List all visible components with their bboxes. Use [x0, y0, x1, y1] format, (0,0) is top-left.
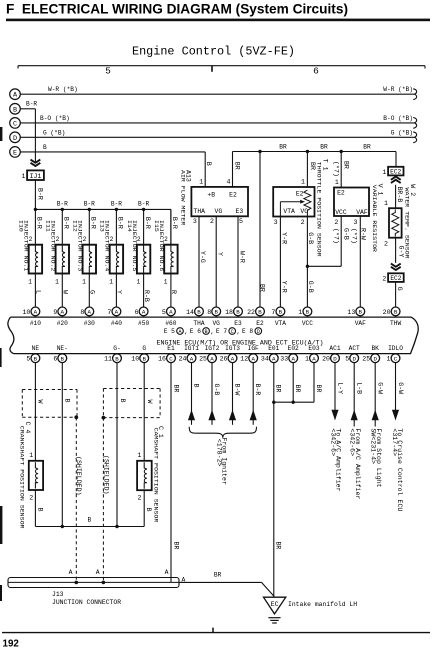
wire BR E2 to ECU [258, 150, 261, 153]
wire B-R below IJ1 [34, 180, 36, 209]
svg-text:EC2: EC2 [390, 275, 401, 282]
svg-text:6: 6 [53, 356, 57, 363]
svg-text:BR: BR [172, 385, 179, 393]
ECU pin 26(A) IGT3 [220, 345, 241, 363]
svg-text:192: 192 [3, 638, 20, 649]
wire BR E02 [292, 363, 294, 403]
svg-text:E 5: E 5 [164, 328, 175, 335]
svg-text:A: A [88, 309, 92, 316]
svg-text:BR: BR [320, 144, 328, 151]
wire B from igniter [188, 363, 200, 425]
svg-text:INJECTOR NO.6: INJECTOR NO.6 [158, 220, 165, 272]
svg-text:A: A [165, 569, 169, 576]
off-page squiggle C [413, 118, 416, 129]
shield drain crank [74, 415, 78, 419]
wire B-W from igniter [229, 363, 241, 425]
svg-text:B: B [359, 309, 363, 316]
svg-text:B: B [236, 309, 240, 316]
svg-text:1: 1 [82, 279, 86, 286]
svg-text:From A/C Amplifier: From A/C Amplifier [354, 428, 361, 499]
ECU pin 1(A) E03 [305, 345, 320, 363]
svg-text:A: A [142, 309, 146, 316]
throttle position sensor T1 [273, 159, 328, 257]
svg-text:A: A [34, 309, 38, 316]
svg-text:(SHIELDED): (SHIELDED) [103, 455, 110, 495]
svg-text:G-W: G-W [397, 382, 404, 394]
svg-text:VCC: VCC [335, 209, 347, 216]
svg-text:From Igniter: From Igniter [221, 438, 228, 486]
svg-text:B-R: B-R [171, 217, 178, 229]
wire G-W IDLO to cruise control ECU [391, 363, 404, 512]
crankshaft position sensor C4 [19, 422, 43, 530]
junction on B-R bus 4 [115, 208, 118, 211]
svg-text:B-R: B-R [144, 217, 151, 229]
arrow down into EC2 pin2 [391, 264, 401, 267]
wire B-R from node B [20, 108, 35, 110]
svg-text:C: C [394, 355, 398, 362]
svg-text:D: D [257, 329, 260, 335]
svg-text:B-R: B-R [90, 217, 97, 229]
svg-text:Y-R: Y-R [280, 281, 287, 293]
svg-text:B-R: B-R [26, 101, 37, 108]
svg-text:JUNCTION CONNECTOR: JUNCTION CONNECTOR [52, 599, 121, 606]
ECU pin 7(A) #40 [107, 307, 122, 327]
svg-text:From Stop Light: From Stop Light [375, 428, 382, 487]
svg-text:CRANKSHAFT POSITION SENSOR: CRANKSHAFT POSITION SENSOR [19, 426, 26, 529]
svg-text:BK: BK [371, 345, 379, 352]
svg-text:F ELECTRICAL WIRING DIAGRAM (: F ELECTRICAL WIRING DIAGRAM (System Circ… [6, 2, 348, 17]
svg-text:A: A [231, 355, 235, 362]
svg-text:A: A [291, 355, 295, 362]
svg-text:B: B [115, 355, 119, 362]
ECU pin 7(B) VTA [271, 307, 286, 327]
svg-text:A: A [272, 355, 276, 362]
BR bus top [233, 151, 397, 153]
svg-text:12: 12 [240, 356, 248, 363]
svg-text:G-W: G-W [377, 382, 384, 394]
svg-text:1: 1 [109, 279, 113, 286]
ground EC intake manifold LH [264, 597, 286, 623]
injector I11 INJECTOR NO.2 [45, 209, 70, 307]
node B [10, 104, 21, 115]
svg-text:G: G [396, 287, 403, 291]
svg-text:W-R (*B): W-R (*B) [48, 86, 78, 93]
svg-text:IDLO: IDLO [388, 345, 403, 352]
svg-text:5: 5 [105, 66, 111, 77]
svg-text:Y: Y [217, 252, 224, 256]
svg-text:L-B: L-B [356, 382, 363, 394]
svg-text:THW: THW [390, 320, 401, 327]
svg-text:G-Y: G-Y [398, 246, 405, 258]
svg-text:4: 4 [227, 178, 231, 185]
svg-text:18: 18 [225, 309, 233, 316]
svg-text:W: W [62, 290, 69, 294]
svg-text:VAF: VAF [355, 320, 366, 327]
wire Y VG [215, 216, 217, 307]
svg-text:20: 20 [383, 309, 391, 316]
svg-text:B-R: B-R [138, 201, 149, 208]
ECU pin 16(C) E1 [158, 345, 175, 363]
svg-text:A: A [251, 355, 255, 362]
shield box crank [22, 389, 77, 391]
svg-text:C: C [231, 329, 234, 335]
svg-text:A: A [69, 569, 73, 576]
junction on B-R bus 3 [88, 208, 91, 211]
svg-text:A: A [61, 309, 65, 316]
svg-text:VARIABLE RESISTOR: VARIABLE RESISTOR [371, 185, 378, 253]
svg-text:#30: #30 [84, 320, 95, 327]
svg-text:C: C [13, 120, 17, 128]
section bracket [18, 65, 425, 67]
svg-text:BR: BR [259, 284, 266, 292]
svg-text:B-R: B-R [254, 384, 261, 396]
svg-text:E03: E03 [308, 345, 319, 352]
wire B below cam sensor [143, 490, 145, 526]
arrow into IJ1 [31, 160, 41, 163]
svg-text:G: G [142, 345, 146, 352]
wire E0 common [274, 401, 314, 403]
svg-text:E: E [13, 149, 17, 157]
svg-text:11: 11 [104, 356, 112, 363]
svg-text:VG: VG [212, 320, 220, 327]
svg-text:IGT1: IGT1 [184, 345, 199, 352]
svg-text:E 6: E 6 [190, 328, 201, 335]
svg-text:W: W [36, 400, 43, 404]
svg-text:B: B [145, 508, 152, 512]
svg-text:B: B [205, 162, 212, 166]
svg-text:R-W: R-W [360, 228, 367, 240]
svg-text:B: B [205, 329, 208, 335]
wire G-B from igniter [208, 363, 220, 425]
injector I13 INJECTOR NO.4 [99, 209, 124, 307]
wire BR E03 [313, 363, 315, 403]
svg-text:E3: E3 [236, 208, 244, 215]
svg-text:IGT3: IGT3 [225, 345, 240, 352]
svg-text:G (*B): G (*B) [391, 129, 413, 136]
wire B from node E to air flow meter [20, 151, 205, 153]
node A [10, 89, 21, 100]
svg-text:E2: E2 [296, 190, 304, 197]
svg-text:VC: VC [300, 208, 308, 215]
svg-text:AIR FLOW METER: AIR FLOW METER [179, 170, 186, 226]
svg-text:5: 5 [239, 218, 243, 225]
svg-text:INJECTOR NO.2: INJECTOR NO.2 [50, 220, 57, 272]
svg-text:2: 2 [384, 241, 388, 248]
svg-text:2: 2 [138, 495, 142, 502]
svg-text:EC2: EC2 [390, 169, 401, 176]
svg-text:33: 33 [280, 356, 288, 363]
svg-text:Y-R: Y-R [280, 232, 287, 244]
svg-text:D: D [13, 135, 17, 143]
svg-text:8: 8 [207, 309, 211, 316]
svg-text:R: R [170, 290, 177, 294]
svg-text:B: B [61, 355, 65, 362]
svg-text:BR: BR [172, 542, 179, 550]
svg-text:B: B [306, 309, 310, 316]
svg-text:25: 25 [362, 356, 370, 363]
wire L-Y AC1 to A/C amplifier [330, 363, 344, 492]
svg-text:2: 2 [334, 219, 338, 226]
svg-text:BR: BR [275, 385, 282, 393]
svg-text:,: , [210, 329, 214, 336]
svg-text:A: A [169, 309, 173, 316]
svg-text:INJECTOR NO.3: INJECTOR NO.3 [77, 220, 84, 272]
svg-text:B: B [394, 309, 398, 316]
svg-text:BR: BR [274, 542, 281, 550]
svg-text:NE-: NE- [57, 345, 68, 352]
svg-text:B-R: B-R [57, 201, 68, 208]
injector I14 INJECTOR NO.5 [126, 209, 151, 307]
svg-text:BR: BR [343, 161, 350, 169]
title underline [6, 19, 430, 22]
svg-text:BR: BR [363, 144, 371, 151]
svg-text:1: 1 [138, 452, 142, 459]
svg-text:1: 1 [136, 279, 140, 286]
wire B to +B pin [204, 152, 206, 187]
svg-text:VCC: VCC [302, 320, 313, 327]
svg-text:W-R: W-R [238, 251, 245, 263]
wire BR-B [395, 185, 397, 208]
ECU pin 10(B) G [131, 345, 148, 363]
camshaft position sensor C1 [137, 426, 164, 523]
page edge mark 3 [0, 506, 2, 544]
svg-text:1: 1 [28, 279, 32, 286]
arrow up into EC2 [391, 177, 401, 180]
wire Y-R VTA [279, 217, 281, 308]
svg-text:BR: BR [315, 385, 322, 393]
svg-text:G-B: G-B [213, 384, 220, 396]
svg-text:26: 26 [220, 356, 228, 363]
svg-text:A: A [115, 309, 119, 316]
wire R-W VAF [359, 216, 361, 307]
ECU pin 10(A) #10 [22, 307, 41, 327]
junction on B-R bus 1 [34, 208, 37, 211]
svg-text:B-O (*B): B-O (*B) [40, 115, 70, 122]
svg-text:G-B: G-B [342, 228, 349, 240]
svg-text:ACT: ACT [349, 345, 360, 352]
svg-text:#20: #20 [57, 320, 68, 327]
svg-text:3: 3 [354, 219, 358, 226]
svg-text:E2: E2 [256, 320, 264, 327]
svg-text:BR: BR [279, 144, 287, 151]
svg-text:B-R: B-R [63, 217, 70, 229]
svg-text:B: B [13, 106, 17, 114]
svg-text:1: 1 [335, 179, 339, 186]
svg-text:2: 2 [210, 218, 214, 225]
junction on B-R bus 5 [142, 208, 145, 211]
ECU pin 1(C) IDLO [387, 345, 404, 363]
svg-text:1: 1 [55, 279, 59, 286]
ECU pin 6(B) NE- [53, 345, 68, 363]
page edge mark 1 [0, 127, 2, 141]
wire B-R bus to injectors [35, 208, 171, 210]
svg-text:B-R: B-R [37, 188, 44, 200]
svg-text:THA: THA [194, 208, 206, 215]
svg-text:,: , [184, 329, 188, 336]
svg-text:14: 14 [186, 309, 194, 316]
ECU band outline [11, 317, 419, 354]
svg-text:B-R: B-R [117, 217, 124, 229]
variable resistor V1 [334, 184, 384, 253]
ECU pin 9(A) #20 [53, 307, 68, 327]
svg-text:10: 10 [22, 309, 30, 316]
wire L-B ACT from A/C amplifier [349, 363, 363, 500]
wire BR to TPS E2 [306, 150, 309, 153]
ECU pin 8(B) VG [207, 307, 220, 327]
svg-text:G (*B): G (*B) [43, 129, 65, 136]
ECU inner label line 1 [164, 328, 262, 336]
svg-text:E2: E2 [337, 190, 345, 197]
ECU pin 8(A) #30 [80, 307, 95, 327]
svg-text:B: B [279, 309, 283, 316]
node C [10, 118, 21, 129]
wire B sensor common [35, 526, 144, 528]
wire BR to EC2 [395, 152, 397, 167]
svg-text:5: 5 [345, 356, 349, 363]
svg-text:1: 1 [387, 356, 391, 363]
svg-text:G-: G- [113, 345, 120, 352]
wire G-B VC to VCC [306, 217, 308, 308]
ECU pin 34(A) E01 [261, 345, 280, 363]
svg-text:NE: NE [32, 345, 40, 352]
svg-text:B-R: B-R [36, 217, 43, 229]
ECU pin 12(A) IGF [240, 345, 259, 363]
svg-text:(SHIELDED): (SHIELDED) [75, 456, 82, 496]
svg-text:#60: #60 [165, 320, 176, 327]
wire G-Y [395, 238, 397, 263]
svg-text:Y-G: Y-G [199, 251, 206, 263]
svg-text:D: D [373, 355, 377, 362]
svg-text:+B: +B [207, 191, 215, 198]
air flow meter A13 [179, 170, 248, 226]
svg-text:5: 5 [162, 309, 166, 316]
svg-text:1: 1 [22, 173, 26, 180]
svg-text:C: C [169, 355, 173, 362]
svg-text:BR-B: BR-B [396, 187, 403, 203]
wire B-R from igniter [250, 363, 262, 425]
svg-text:3: 3 [274, 219, 278, 226]
svg-text:1: 1 [29, 452, 33, 459]
svg-text:E2: E2 [229, 191, 237, 198]
svg-text:25: 25 [199, 356, 207, 363]
junction connector J13 [8, 569, 186, 606]
svg-text:24: 24 [179, 356, 187, 363]
svg-text:BR: BR [214, 572, 222, 579]
ECU pin 33(A) E02 [280, 345, 299, 363]
svg-text:E01: E01 [268, 345, 279, 352]
ECU pin 20(D) AC1 [322, 345, 341, 363]
wire B below crank sensor [34, 490, 36, 527]
svg-text:3: 3 [193, 218, 197, 225]
wire BR E01 [273, 363, 275, 598]
wire W G to cam sensor [143, 363, 145, 461]
svg-text:B: B [36, 508, 43, 512]
node E [10, 147, 21, 158]
svg-text:INJECTOR NO.4: INJECTOR NO.4 [104, 220, 111, 272]
svg-text:B-R: B-R [84, 201, 95, 208]
svg-text:Engine Control (5VZ-FE): Engine Control (5VZ-FE) [132, 46, 295, 59]
svg-text:IGT2: IGT2 [205, 345, 220, 352]
injector I12 INJECTOR NO.3 [72, 209, 97, 307]
svg-text:(*7): (*7) [332, 228, 339, 244]
brace from igniter [189, 427, 256, 438]
svg-text:G-B: G-B [307, 281, 314, 293]
ECU pin 6(A) #50 [135, 307, 150, 327]
svg-text:AC1: AC1 [329, 345, 340, 352]
svg-text:B: B [87, 517, 91, 524]
water temp sensor W2 [389, 184, 416, 259]
svg-text:1: 1 [199, 178, 203, 185]
svg-text:1: 1 [164, 279, 168, 286]
svg-text:22: 22 [247, 309, 255, 316]
ECU pin 5(D) ACT [345, 345, 360, 363]
svg-text:BR: BR [233, 162, 240, 170]
ECU pin 18(B) E3 [225, 307, 242, 327]
svg-text:6: 6 [135, 309, 139, 316]
svg-text:E 7: E 7 [216, 328, 227, 335]
shield drain cam [102, 416, 106, 420]
wire G-W BK from stop light switch [370, 363, 384, 488]
svg-text:B: B [193, 384, 200, 388]
svg-text:To Cruise Control ECU: To Cruise Control ECU [396, 428, 403, 511]
ECU pin 24(A) IGT1 [179, 345, 200, 363]
wire B-O bus from node C [20, 122, 415, 124]
svg-text:#50: #50 [138, 320, 149, 327]
wire W NE to crank sensor [34, 363, 36, 461]
ECU pin 14(B) THA [186, 307, 205, 327]
svg-text:B: B [142, 355, 146, 362]
svg-text:#10: #10 [30, 320, 41, 327]
svg-text:B: B [258, 309, 262, 316]
wire G bus from node D [20, 136, 415, 138]
wire G to THW [395, 282, 397, 307]
ECU pin 25(A) IGT2 [199, 345, 220, 363]
svg-text:B: B [197, 309, 201, 316]
injector I15 INJECTOR NO.6 [153, 209, 178, 307]
shield box cam [103, 388, 160, 390]
svg-text:B: B [214, 309, 218, 316]
svg-text:1: 1 [301, 178, 305, 185]
ECU pin 22(B) E2 [247, 307, 264, 327]
svg-text:To A/C Amplifier: To A/C Amplifier [335, 428, 342, 491]
junction connector EC2 pin2 [388, 273, 404, 282]
svg-text:,: , [237, 329, 241, 336]
svg-text:Y: Y [116, 290, 123, 294]
svg-text:B: B [43, 144, 47, 151]
svg-text:BR: BR [294, 385, 301, 393]
off-page squiggle D [413, 132, 416, 143]
wire BR J13 to ground [179, 581, 262, 583]
svg-text:VG: VG [215, 208, 223, 215]
svg-text:1: 1 [298, 309, 302, 316]
ECU pin 5(A) #60 [162, 307, 177, 327]
bottom rule [2, 632, 430, 634]
svg-text:E 8: E 8 [242, 328, 253, 335]
svg-text:B: B [34, 355, 38, 362]
svg-text:5: 5 [26, 356, 30, 363]
svg-text:20: 20 [322, 356, 330, 363]
off-page squiggle A [413, 89, 416, 100]
junction VCC [306, 265, 309, 268]
svg-text:1: 1 [305, 356, 309, 363]
svg-text:G-B: G-B [307, 232, 314, 244]
svg-text:W: W [146, 400, 153, 404]
junction connector IJ1 [27, 170, 44, 180]
svg-text:34: 34 [261, 356, 269, 363]
page edge mark 4 [0, 585, 2, 601]
junction on B-R bus 2 [61, 208, 64, 211]
svg-text:G: G [89, 290, 96, 294]
